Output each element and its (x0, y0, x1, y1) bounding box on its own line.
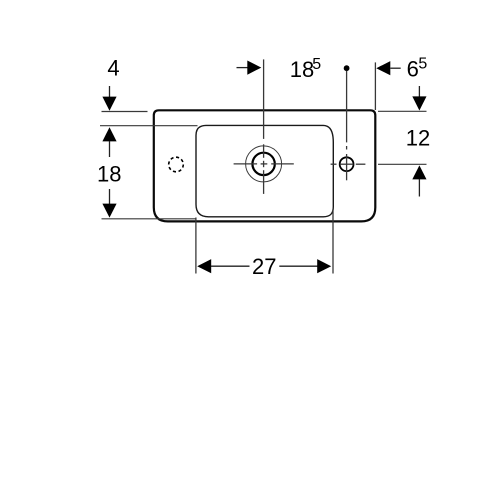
dimension 27 arrow left (197, 259, 211, 273)
dimension 18.5 arrow right (237, 67, 250, 69)
svg-text:5: 5 (418, 56, 427, 73)
dimension 4 arrow down (109, 86, 111, 98)
dimension 18 arrow up (102, 127, 116, 141)
svg-text:12: 12 (406, 125, 430, 150)
reference line basin top right (378, 110, 427, 112)
svg-text:18: 18 (290, 57, 314, 82)
extension line bowl left (195, 218, 197, 274)
reference line basin bottom left (102, 218, 197, 220)
dimension 12 arrow down (418, 86, 420, 97)
tap hole outer circle (246, 146, 282, 182)
washbasin inner bowl outline (196, 125, 333, 216)
washbasin outer outline (154, 110, 375, 221)
reference line basin top left (102, 111, 148, 113)
reference line hole axis right (378, 163, 427, 165)
right hole vertical centerline with reference dot (344, 65, 350, 71)
dimension 6.5 arrow left (376, 61, 390, 75)
svg-text:4: 4 (107, 56, 119, 81)
svg-text:27: 27 (252, 254, 276, 279)
reference line inner rim top (100, 125, 198, 127)
right hole horizontal centerline (331, 163, 366, 165)
tap hole vertical centerline (263, 59, 265, 194)
dimension 18 arrow down (109, 189, 111, 204)
svg-text:5: 5 (312, 56, 321, 73)
dimension 27 arrow right (279, 265, 317, 267)
svg-text:6: 6 (407, 57, 419, 82)
dimension 12 arrow up (412, 165, 426, 179)
svg-text:18: 18 (97, 161, 121, 186)
extension line bowl right (332, 209, 334, 274)
right fitting hole circle (340, 157, 354, 171)
extension line basin right edge (374, 62, 376, 110)
tap hole horizontal centerline (234, 163, 294, 165)
overflow dashed circle (169, 157, 184, 172)
tap hole inner circle (252, 153, 274, 175)
